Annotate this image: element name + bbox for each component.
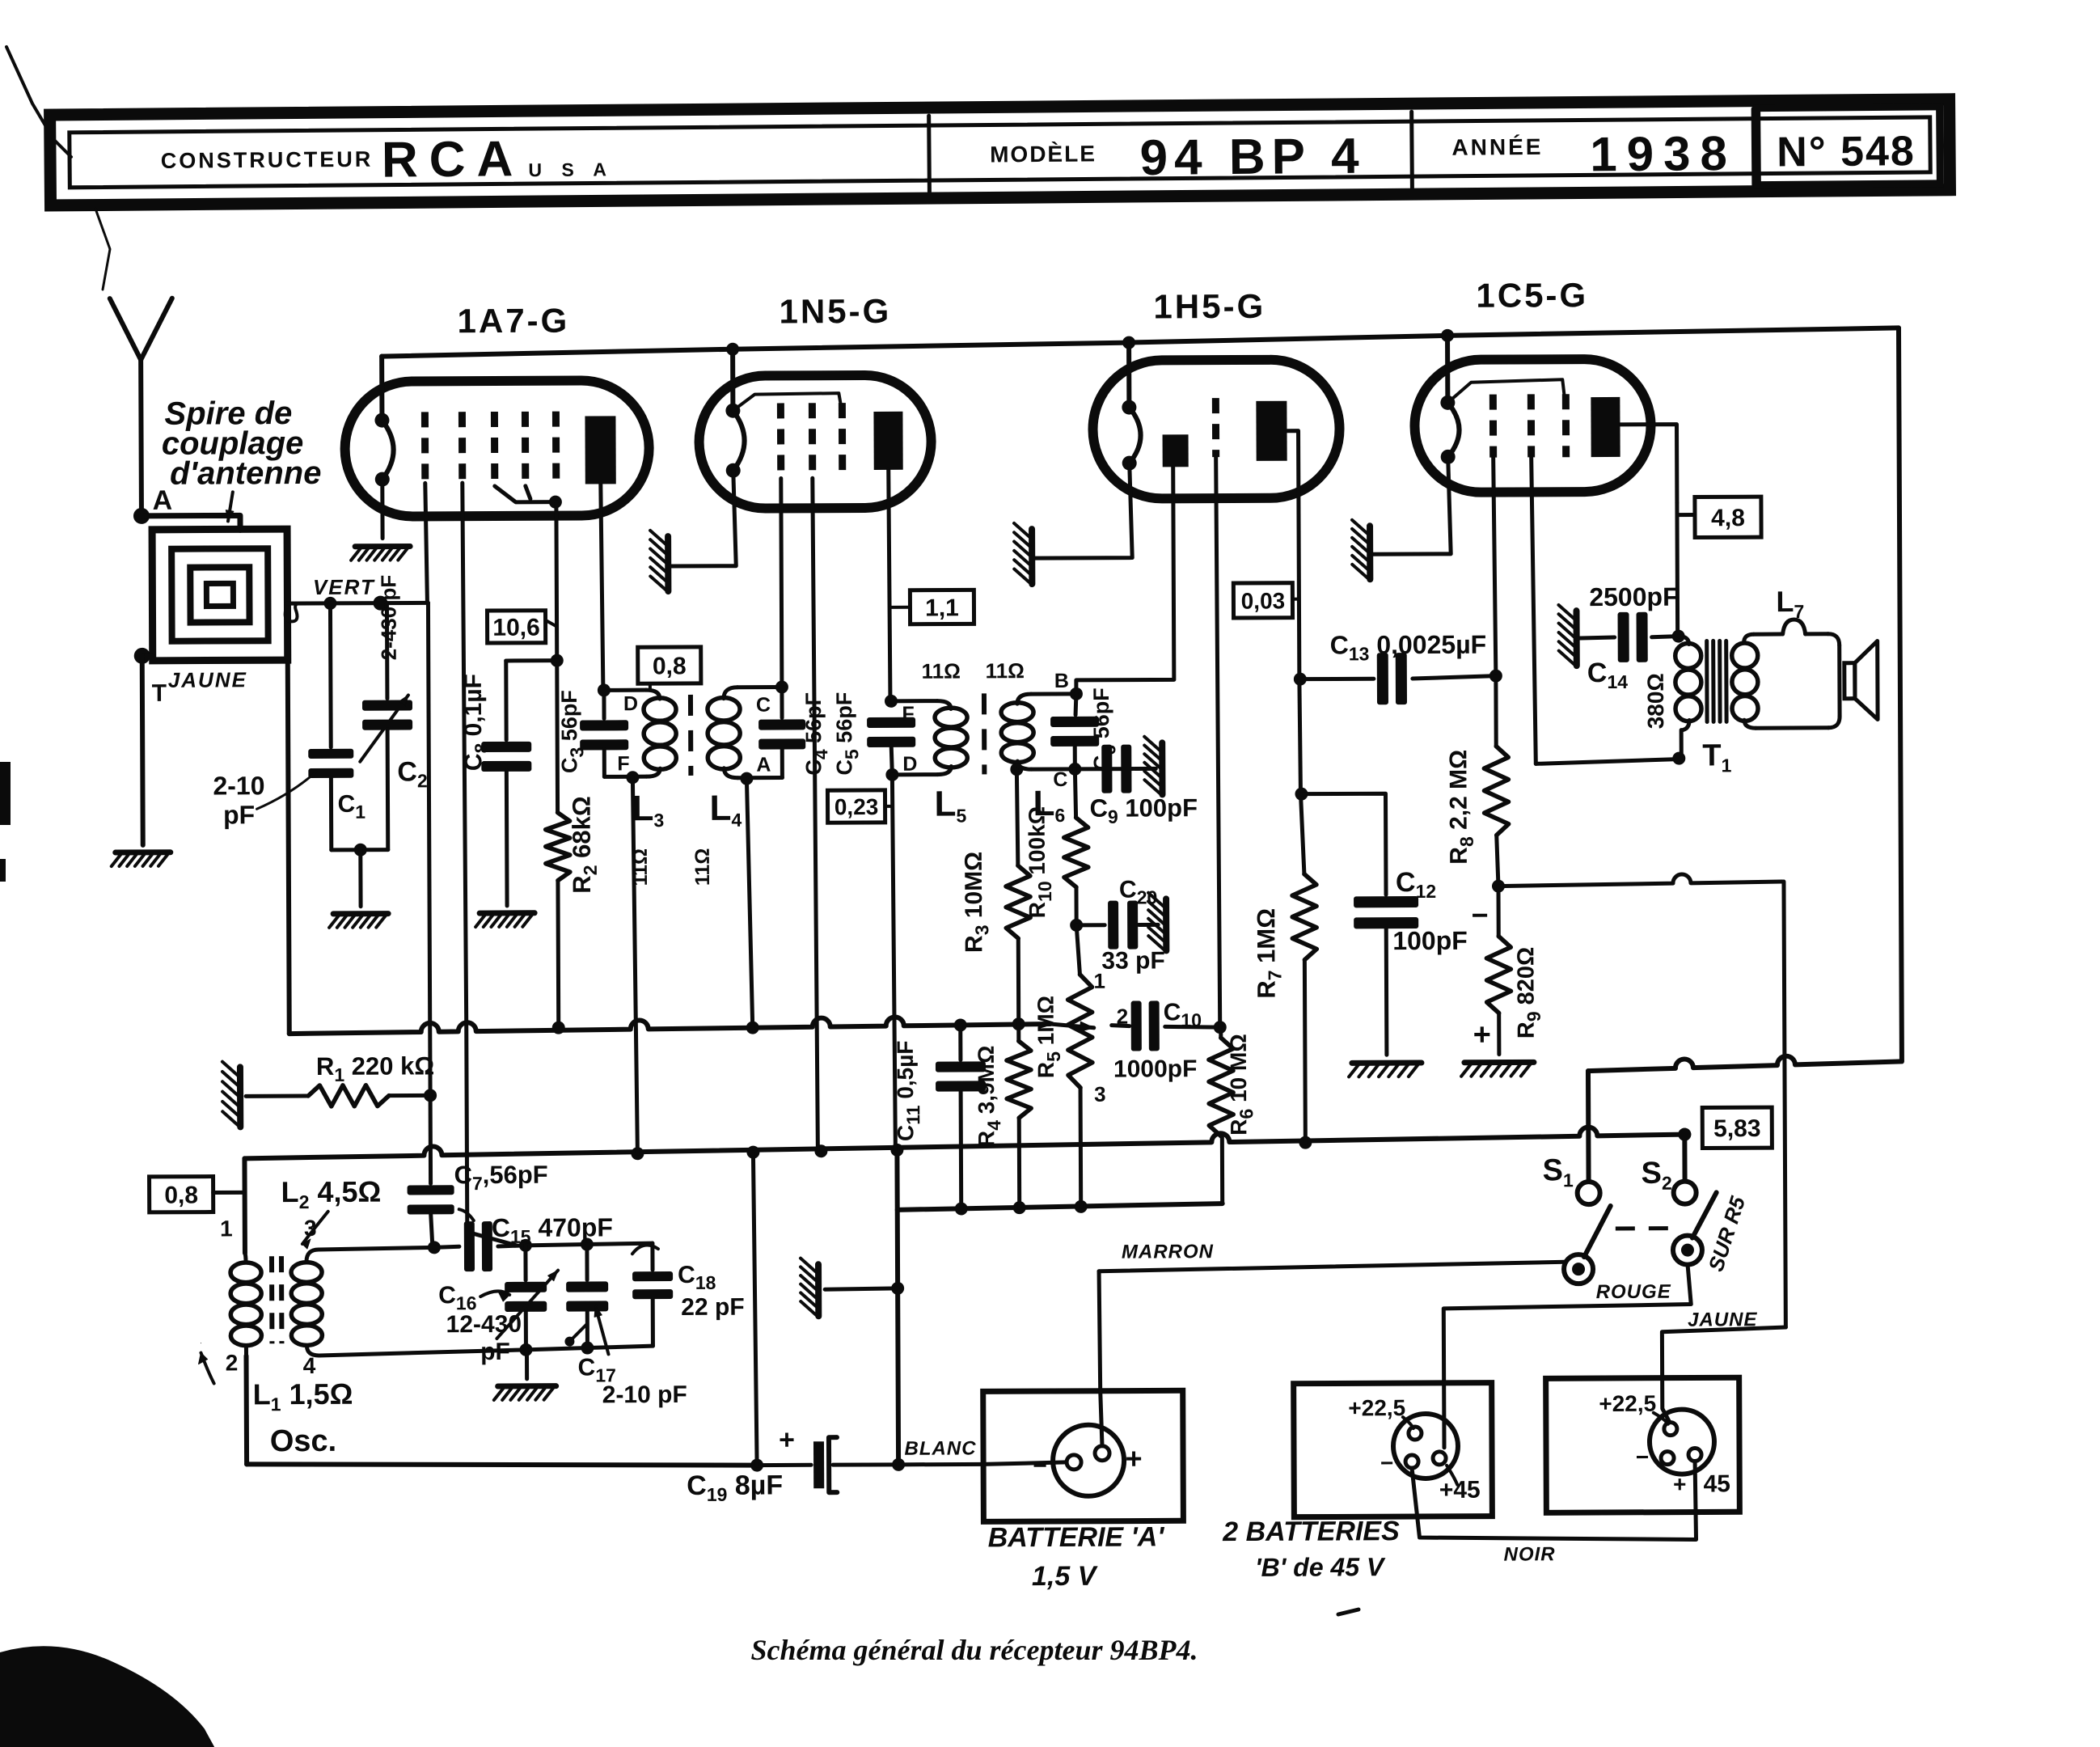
svg-text:C7,56pF: C7,56pF (454, 1161, 547, 1195)
svg-text:ROUGE: ROUGE (1596, 1281, 1671, 1303)
svg-text:10,6: 10,6 (492, 615, 540, 641)
svg-text:+: + (1125, 1442, 1142, 1475)
svg-text:A: A (756, 754, 771, 776)
svg-text:45: 45 (1703, 1470, 1730, 1497)
svg-text:5,83: 5,83 (1713, 1115, 1761, 1142)
svg-text:1000pF: 1000pF (1113, 1055, 1198, 1082)
svg-text:11Ω: 11Ω (629, 848, 652, 886)
svg-text:11Ω: 11Ω (986, 658, 1025, 683)
svg-text:JAUNE: JAUNE (1688, 1309, 1757, 1330)
svg-text:1,5 V: 1,5 V (1032, 1561, 1099, 1592)
svg-text:D: D (623, 692, 638, 715)
svg-text:380Ω: 380Ω (1643, 673, 1668, 729)
svg-text:U S A: U S A (528, 159, 614, 180)
svg-text:JAUNE: JAUNE (168, 667, 247, 692)
svg-text:3: 3 (304, 1216, 317, 1241)
svg-text:2500pF: 2500pF (1589, 582, 1678, 611)
svg-text:Osc.: Osc. (270, 1424, 337, 1458)
svg-text:11Ω: 11Ω (691, 848, 714, 886)
svg-text:1A7-G: 1A7-G (457, 302, 569, 341)
svg-text:C14: C14 (1587, 658, 1629, 692)
svg-text:R4 3,9MΩ: R4 3,9MΩ (974, 1045, 1005, 1147)
svg-text:L2 4,5Ω: L2 4,5Ω (281, 1175, 382, 1213)
svg-text:0,03: 0,03 (1241, 588, 1286, 613)
svg-text:3: 3 (1094, 1082, 1106, 1106)
svg-text:d'antenne: d'antenne (170, 455, 322, 492)
svg-text:2-10: 2-10 (213, 771, 264, 800)
svg-text:1938: 1938 (1590, 126, 1737, 181)
svg-text:T1: T1 (1702, 738, 1731, 776)
svg-text:33 pF: 33 pF (1101, 947, 1165, 974)
svg-text:R3 10MΩ: R3 10MΩ (961, 852, 993, 953)
svg-text:4,8: 4,8 (1711, 505, 1745, 531)
svg-text:+22,5: +22,5 (1599, 1391, 1656, 1416)
svg-text:11Ω: 11Ω (922, 658, 961, 683)
svg-text:2-430 pF: 2-430 pF (376, 575, 400, 661)
svg-text:A: A (153, 485, 173, 516)
svg-text:94 BP 4: 94 BP 4 (1139, 129, 1365, 186)
svg-text:12-430: 12-430 (446, 1311, 522, 1338)
svg-text:RCA: RCA (382, 131, 525, 188)
svg-text:R9 820Ω: R9 820Ω (1513, 947, 1544, 1039)
svg-text:C2: C2 (397, 756, 428, 791)
svg-text:C: C (756, 694, 771, 717)
svg-text:2 BATTERIES: 2 BATTERIES (1222, 1516, 1400, 1547)
svg-text:0,23: 0,23 (835, 794, 879, 819)
svg-text:−: − (1380, 1450, 1393, 1475)
svg-text:2: 2 (226, 1350, 239, 1375)
svg-text:2: 2 (1117, 1005, 1129, 1029)
svg-text:MARRON: MARRON (1122, 1241, 1214, 1263)
svg-text:pF: pF (480, 1339, 510, 1365)
svg-text:S2: S2 (1641, 1157, 1671, 1194)
svg-text:Schéma général du récept: Schéma général du récepteur 94BP4. (751, 1634, 1198, 1666)
svg-text:NOIR: NOIR (1504, 1543, 1556, 1565)
svg-text:C15 470pF: C15 470pF (492, 1212, 613, 1247)
svg-text:C5 56pF: C5 56pF (832, 692, 862, 776)
svg-text:C13 0,0025µF: C13 0,0025µF (1330, 630, 1487, 665)
svg-text:L7: L7 (1776, 585, 1804, 622)
svg-text:1,1: 1,1 (925, 594, 959, 621)
svg-text:+45: +45 (1439, 1477, 1481, 1504)
svg-text:1: 1 (1093, 969, 1105, 993)
svg-text:+: + (1673, 1472, 1686, 1497)
svg-text:C11 0,5µF: C11 0,5µF (893, 1040, 924, 1141)
svg-text:T: T (152, 680, 167, 707)
svg-text:+: + (779, 1424, 795, 1455)
svg-text:C3 56pF: C3 56pF (557, 690, 587, 773)
svg-text:C20: C20 (1119, 876, 1157, 907)
svg-text:L5: L5 (934, 784, 966, 826)
svg-text:F: F (902, 703, 914, 725)
svg-text:B: B (1054, 670, 1069, 692)
svg-text:C1: C1 (337, 791, 365, 823)
svg-text:1C5-G: 1C5-G (1476, 276, 1588, 315)
svg-text:L1 1,5Ω: L1 1,5Ω (253, 1377, 353, 1415)
svg-text:C19 8µF: C19 8µF (687, 1470, 783, 1505)
svg-text:ANNÉE: ANNÉE (1451, 134, 1543, 160)
svg-text:22 pF: 22 pF (681, 1294, 745, 1321)
svg-text:R6 10 MΩ: R6 10 MΩ (1226, 1034, 1257, 1136)
svg-text:0,8: 0,8 (653, 653, 687, 679)
svg-text:MODÈLE: MODÈLE (990, 141, 1096, 167)
svg-text:C16: C16 (438, 1282, 476, 1313)
svg-text:1H5-G: 1H5-G (1153, 287, 1265, 326)
svg-text:R7 1MΩ: R7 1MΩ (1252, 908, 1285, 999)
svg-text:C9 100pF: C9 100pF (1089, 793, 1198, 827)
svg-text:VERT: VERT (313, 575, 375, 599)
svg-text:F: F (617, 752, 629, 775)
svg-text:N° 548: N° 548 (1777, 128, 1916, 176)
svg-text:+22,5: +22,5 (1348, 1395, 1405, 1420)
svg-text:C4 56pF: C4 56pF (801, 692, 831, 776)
svg-text:−: − (1472, 899, 1489, 932)
svg-text:−: − (1636, 1445, 1649, 1470)
svg-text:2-10 pF: 2-10 pF (602, 1381, 687, 1408)
svg-text:L3: L3 (632, 789, 664, 831)
svg-text:C12: C12 (1396, 867, 1436, 902)
svg-text:R2 68kΩ: R2 68kΩ (567, 796, 601, 894)
svg-text:−: − (1033, 1453, 1047, 1479)
svg-text:pF: pF (223, 800, 255, 829)
svg-text:L4: L4 (709, 789, 742, 831)
svg-text:CONSTRUCTEUR: CONSTRUCTEUR (161, 147, 374, 173)
svg-text:BATTERIE 'A': BATTERIE 'A' (988, 1521, 1166, 1553)
svg-text:C18: C18 (678, 1262, 716, 1293)
svg-text:D: D (902, 753, 917, 776)
svg-text:C8 0,1µF: C8 0,1µF (460, 674, 492, 771)
svg-text:C: C (1053, 768, 1067, 791)
svg-text:4: 4 (303, 1353, 316, 1378)
svg-text:0,8: 0,8 (164, 1182, 198, 1208)
svg-text:R5 1MΩ: R5 1MΩ (1033, 996, 1064, 1078)
svg-text:'B' de 45 V: 'B' de 45 V (1255, 1552, 1386, 1582)
svg-text:100pF: 100pF (1392, 926, 1468, 955)
svg-text:R1 220 kΩ: R1 220 kΩ (316, 1051, 434, 1085)
svg-text:R8 2,2 MΩ: R8 2,2 MΩ (1445, 750, 1477, 865)
svg-text:+: + (1473, 1018, 1491, 1052)
svg-text:1: 1 (220, 1216, 233, 1241)
svg-text:S1: S1 (1542, 1153, 1574, 1191)
svg-text:BLANC: BLANC (904, 1437, 976, 1459)
svg-text:1N5-G: 1N5-G (779, 292, 891, 331)
